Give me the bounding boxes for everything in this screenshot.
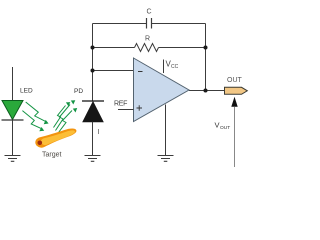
light arrow target to PD 1 — [56, 100, 76, 130]
target blob highlight — [41, 130, 75, 145]
node junction left input — [91, 69, 95, 73]
pin minus — [138, 71, 143, 73]
wire LED anode — [12, 67, 14, 101]
LED cathode bar — [2, 119, 24, 121]
light arrow target to PD 2 — [59, 108, 78, 133]
light arrow LED to target 1 — [26, 102, 49, 124]
wire PD anode — [92, 122, 94, 156]
svg-text:REF: REF — [114, 101, 127, 108]
node junction left R — [91, 46, 95, 50]
node junction right R — [204, 46, 208, 50]
svg-text:OUT: OUT — [220, 125, 230, 131]
OUT tag — [225, 87, 248, 94]
node junction output — [204, 89, 208, 93]
photodiode PD cathode bar — [82, 100, 104, 102]
svg-text:OUT: OUT — [227, 77, 243, 84]
svg-text:V: V — [215, 121, 220, 130]
resistor R — [135, 44, 159, 52]
svg-text:Target: Target — [42, 152, 62, 159]
wire inverting input — [93, 70, 134, 72]
wire op-amp to ground — [165, 105, 167, 156]
ground LED — [5, 156, 21, 162]
target hot spot — [38, 141, 43, 146]
capacitor C — [147, 18, 152, 29]
op-amp U1 — [134, 58, 190, 122]
pin plus — [137, 105, 143, 111]
wire LED cathode — [12, 120, 14, 156]
wire right vertical (output to feedback) — [205, 24, 207, 91]
wire REF stub — [118, 109, 134, 111]
ground op-amp — [158, 156, 174, 162]
Vout arrow — [234, 107, 236, 167]
svg-text:R: R — [145, 36, 150, 43]
ground PD — [85, 156, 101, 162]
light arrow LED to target 2 — [22, 111, 44, 132]
wire top feedback (capacitor branch) — [93, 23, 206, 25]
wire left vertical (inverting node) — [92, 24, 94, 102]
target blob — [35, 128, 76, 147]
LED D1 — [2, 101, 23, 120]
svg-text:CC: CC — [171, 64, 179, 70]
light arrow target to PD 3 — [54, 102, 71, 127]
svg-text:I: I — [98, 129, 100, 136]
svg-text:PD: PD — [74, 88, 83, 95]
photodiode PD — [83, 102, 103, 122]
wire Vcc stub — [163, 60, 165, 74]
wire resistor branch — [93, 47, 206, 49]
svg-text:LED: LED — [20, 88, 33, 95]
svg-text:C: C — [146, 9, 151, 16]
wire output — [189, 90, 225, 92]
